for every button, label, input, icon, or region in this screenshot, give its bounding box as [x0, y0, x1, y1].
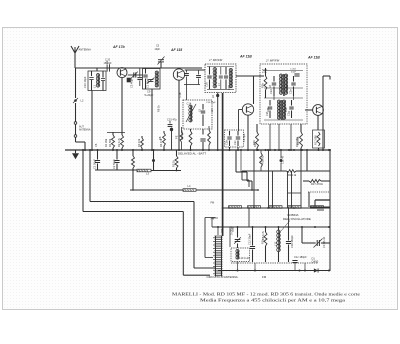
svg-text:OA90: OA90 [312, 260, 319, 264]
svg-text:L11: L11 [274, 241, 278, 246]
svg-text:C14: C14 [187, 101, 192, 105]
svg-text:R14 1k: R14 1k [288, 173, 297, 177]
svg-text:DELAYED AL - BATT: DELAYED AL - BATT [178, 152, 206, 156]
svg-text:ANTENNA: ANTENNA [79, 129, 91, 132]
svg-text:C1b: C1b [178, 92, 182, 97]
svg-text:R8 4,7k: R8 4,7k [261, 230, 265, 240]
svg-text:C2 50µF: C2 50µF [112, 159, 116, 169]
svg-text:R1 56k: R1 56k [108, 138, 112, 147]
svg-text:R17 680: R17 680 [314, 135, 318, 145]
svg-text:C2c: C2c [233, 140, 237, 145]
svg-text:C1 50µF: C1 50µF [93, 159, 97, 169]
svg-text:R1b 100: R1b 100 [180, 130, 184, 140]
svg-text:FM: FM [262, 275, 267, 279]
svg-text:AF 11B: AF 11B [239, 55, 252, 59]
svg-text:R17 270Ω: R17 270Ω [311, 182, 323, 186]
svg-text:C14 47pF: C14 47pF [206, 102, 216, 104]
svg-text:R16 68: R16 68 [296, 136, 300, 145]
svg-text:AF 11B: AF 11B [307, 56, 320, 60]
svg-text:CIRCUITO D'ANTENNA: CIRCUITO D'ANTENNA [207, 275, 238, 279]
svg-text:2° MF/FM: 2° MF/FM [265, 59, 280, 63]
svg-text:C2e: C2e [289, 89, 293, 94]
svg-text:R6 1k: R6 1k [157, 105, 161, 112]
svg-text:C2b: C2b [225, 140, 229, 145]
svg-text:R8: R8 [158, 136, 162, 140]
svg-text:L10 3÷20: L10 3÷20 [239, 256, 250, 260]
svg-text:R1 39k: R1 39k [104, 138, 108, 147]
svg-text:R1b: R1b [252, 140, 256, 145]
svg-text:MARELLI - Mod. RD 105 MF -: MARELLI - Mod. RD 105 MF - 12 mod. RD 30… [172, 291, 360, 296]
svg-text:C17 8÷30: C17 8÷30 [322, 236, 326, 248]
svg-text:AM: AM [211, 218, 215, 221]
svg-text:47pF: 47pF [291, 71, 297, 73]
svg-text:C18: C18 [227, 85, 231, 90]
svg-text:5÷20pF: 5÷20pF [230, 226, 234, 235]
svg-text:C1b 360pF: C1b 360pF [290, 235, 294, 248]
svg-text:1° MF/FM: 1° MF/FM [209, 58, 223, 62]
svg-text:C8 5pF: C8 5pF [242, 133, 246, 142]
svg-text:R2 4,7k: R2 4,7k [117, 137, 121, 147]
svg-text:R20b: R20b [262, 70, 268, 72]
svg-text:C11 40: C11 40 [281, 155, 285, 164]
svg-text:C9: C9 [147, 90, 151, 94]
svg-text:C1c 180pF: C1c 180pF [294, 255, 307, 259]
svg-text:C10 10pF: C10 10pF [83, 76, 87, 88]
svg-text:C3 40pF: C3 40pF [130, 78, 134, 88]
svg-text:R2b: R2b [261, 83, 265, 88]
svg-text:5÷20pF: 5÷20pF [145, 93, 154, 97]
svg-text:C6: C6 [94, 143, 98, 147]
svg-text:L9b: L9b [284, 107, 288, 112]
svg-text:FM: FM [211, 202, 215, 205]
svg-text:C1 30pF: C1 30pF [146, 78, 150, 88]
svg-text:R5 1k: R5 1k [172, 160, 176, 167]
svg-text:C2: C2 [105, 60, 109, 64]
svg-text:DELL'OSCILLATORE: DELL'OSCILLATORE [283, 217, 311, 221]
svg-text:C12 30pF: C12 30pF [248, 233, 252, 245]
svg-text:C15 47p: C15 47p [167, 118, 177, 122]
svg-text:C 202: C 202 [290, 69, 297, 71]
svg-text:R12 82: R12 82 [261, 155, 265, 164]
svg-text:C16: C16 [205, 82, 209, 87]
svg-text:L8b: L8b [266, 107, 270, 112]
svg-text:10pF: 10pF [155, 48, 161, 51]
svg-text:AF 17b: AF 17b [112, 45, 126, 49]
svg-text:C2d: C2d [269, 89, 273, 94]
svg-text:OM: OM [220, 229, 224, 233]
svg-text:PE: PE [175, 135, 179, 139]
svg-text:AF 115: AF 115 [170, 48, 182, 52]
svg-text:ANTENNA: ANTENNA [79, 48, 92, 52]
svg-text:R3 10k: R3 10k [137, 138, 141, 147]
